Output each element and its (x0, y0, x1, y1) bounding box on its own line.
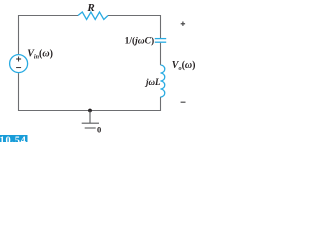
plus sign output (181, 22, 185, 26)
voltage source Vin circle (10, 55, 28, 73)
svg-text:R: R (86, 2, 94, 14)
capacitor plate bottom (155, 41, 166, 43)
svg-text:0: 0 (97, 124, 101, 134)
junction node dot (88, 109, 92, 113)
minus sign output (181, 101, 186, 103)
source - sign (16, 67, 21, 69)
wire bottom-left segment (19, 73, 91, 110)
svg-text:Vin(ω): Vin(ω) (27, 48, 53, 60)
wire top-right segment (108, 16, 161, 39)
capacitor plate top (155, 38, 166, 40)
ground bar 2 (85, 127, 96, 129)
wire capacitor-to-inductor (160, 43, 162, 65)
svg-text:Vo(ω): Vo(ω) (172, 60, 196, 72)
figure number box (0, 135, 28, 142)
resistor R zigzag (78, 12, 108, 20)
svg-text:10.54: 10.54 (0, 136, 27, 142)
source + sign (16, 57, 21, 62)
wire inductor-to-bottom (90, 97, 161, 111)
ground stub (89, 111, 91, 124)
ground bar 1 (82, 122, 99, 124)
svg-text:1/(jωC): 1/(jωC) (125, 35, 155, 46)
svg-text:jωL: jωL (144, 77, 161, 87)
wire top-left segment (19, 16, 79, 55)
inductor jwL coil (160, 65, 164, 97)
